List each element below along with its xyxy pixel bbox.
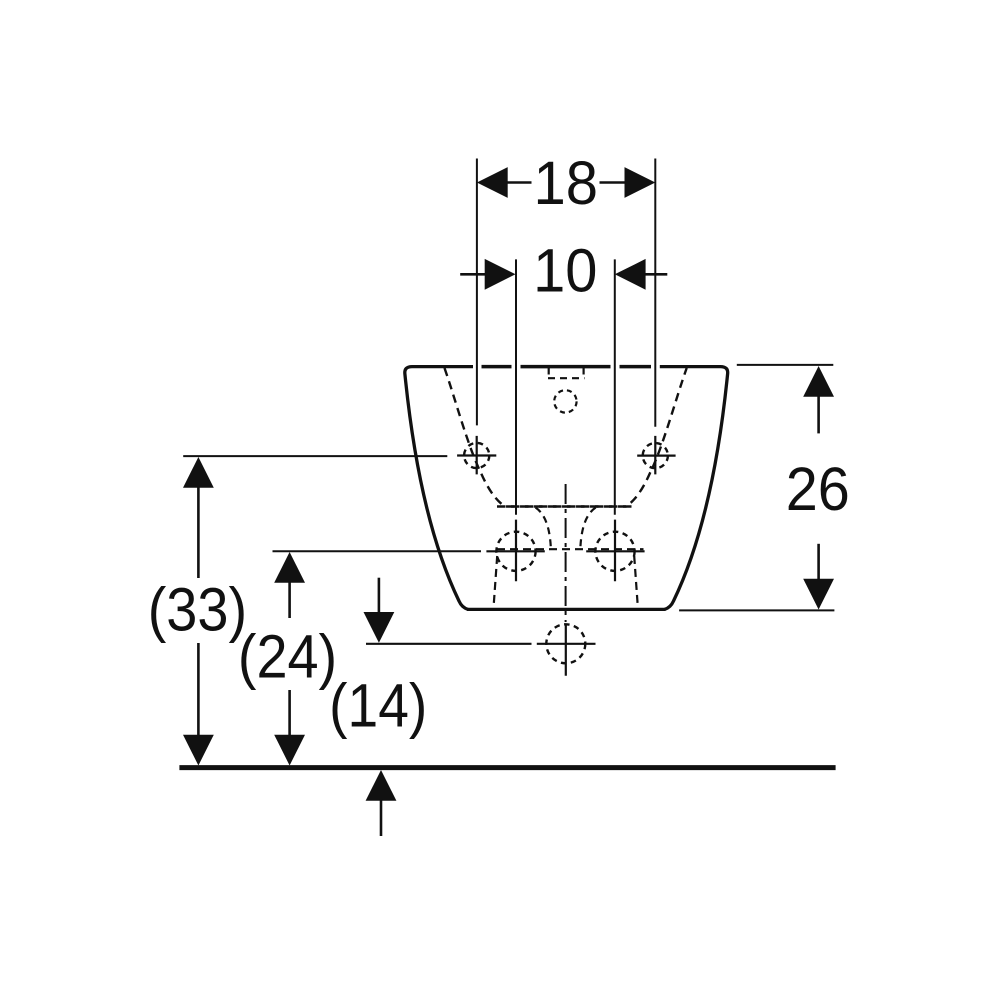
lower-left fixing hole circle bbox=[496, 532, 535, 571]
dim 33 arrow down bbox=[183, 735, 214, 766]
dim 10 line left bbox=[460, 273, 486, 276]
body outline right side bbox=[660, 367, 728, 610]
dim 14 arrow down bbox=[364, 612, 395, 643]
left leg outer dashed bbox=[494, 556, 498, 607]
dim 26 bottom leader bbox=[679, 609, 834, 611]
hidden line through lower holes bbox=[497, 548, 644, 550]
dim 14 arrow up below floor bbox=[366, 770, 397, 801]
dim 18 arrow right bbox=[625, 167, 656, 198]
lower-left hole crosshair bbox=[486, 520, 544, 582]
svg-text:(33): (33) bbox=[148, 575, 247, 643]
floor line bbox=[179, 765, 835, 770]
svg-text:(24): (24) bbox=[238, 623, 337, 691]
top notch tick left bbox=[548, 368, 550, 375]
dim 24 lower tail bbox=[288, 690, 291, 737]
dim 26 arrow down bbox=[803, 579, 834, 610]
svg-text:18: 18 bbox=[534, 149, 599, 217]
drain hole crosshair bbox=[537, 624, 596, 676]
dim 10 extension line left bbox=[515, 259, 517, 514]
upper-left hole crosshair bbox=[457, 436, 496, 475]
dim 24 top leader bbox=[273, 550, 482, 552]
dim 18 extension line right bbox=[654, 159, 656, 427]
dim 10 arrow right bbox=[615, 259, 646, 290]
dim 33 lower tail bbox=[197, 643, 200, 737]
svg-text:26: 26 bbox=[786, 455, 850, 523]
dim 14 upper tail bbox=[378, 578, 381, 613]
body outline left side bbox=[405, 367, 473, 610]
dim 26 upper tail bbox=[817, 395, 820, 433]
dim 24 arrow down bbox=[274, 735, 305, 766]
drain leader line bbox=[366, 643, 532, 645]
right leg outer dashed bbox=[634, 556, 638, 607]
dim 26 top leader bbox=[737, 364, 834, 366]
boss edge right of center bbox=[580, 508, 595, 548]
dim 18 line right bbox=[600, 181, 627, 184]
dim 26 arrow up bbox=[803, 366, 834, 397]
body top edge segments bbox=[482, 365, 652, 369]
dim 10 extension line right bbox=[614, 259, 616, 514]
hidden chord line bbox=[497, 505, 634, 507]
vertical center line bbox=[565, 484, 567, 622]
dim 24 upper tail bbox=[288, 581, 291, 618]
dim 10 arrow left bbox=[485, 259, 516, 290]
dim 18 extension line left bbox=[476, 159, 478, 426]
top notch tick right bbox=[582, 368, 584, 375]
upper-left fixing hole circle bbox=[464, 443, 489, 468]
upper-right hole crosshair bbox=[637, 436, 675, 475]
dim 18 line left bbox=[506, 181, 532, 184]
hidden rim U-curve bbox=[445, 368, 687, 507]
drain hole circle bbox=[546, 624, 585, 663]
dim 33 upper tail bbox=[197, 486, 200, 578]
upper-right fixing hole circle bbox=[643, 443, 668, 468]
dim 14 lower tail bbox=[380, 799, 383, 836]
dim 26 lower tail bbox=[817, 544, 820, 581]
dim 10 line right bbox=[644, 273, 668, 276]
svg-text:10: 10 bbox=[533, 237, 597, 305]
boss edge left of center bbox=[536, 508, 551, 548]
dim 33 top leader bbox=[183, 455, 447, 457]
svg-text:(14): (14) bbox=[329, 672, 427, 740]
top notch dashed bottom bbox=[548, 377, 585, 379]
dim 18 arrow left bbox=[477, 167, 508, 198]
dim 33 arrow up bbox=[183, 457, 214, 488]
lower-right hole crosshair bbox=[586, 520, 644, 582]
small overflow circle bbox=[554, 390, 576, 412]
lower-right fixing hole circle bbox=[595, 532, 634, 571]
dim 24 arrow up bbox=[274, 552, 305, 583]
body bottom edge bbox=[467, 608, 666, 611]
